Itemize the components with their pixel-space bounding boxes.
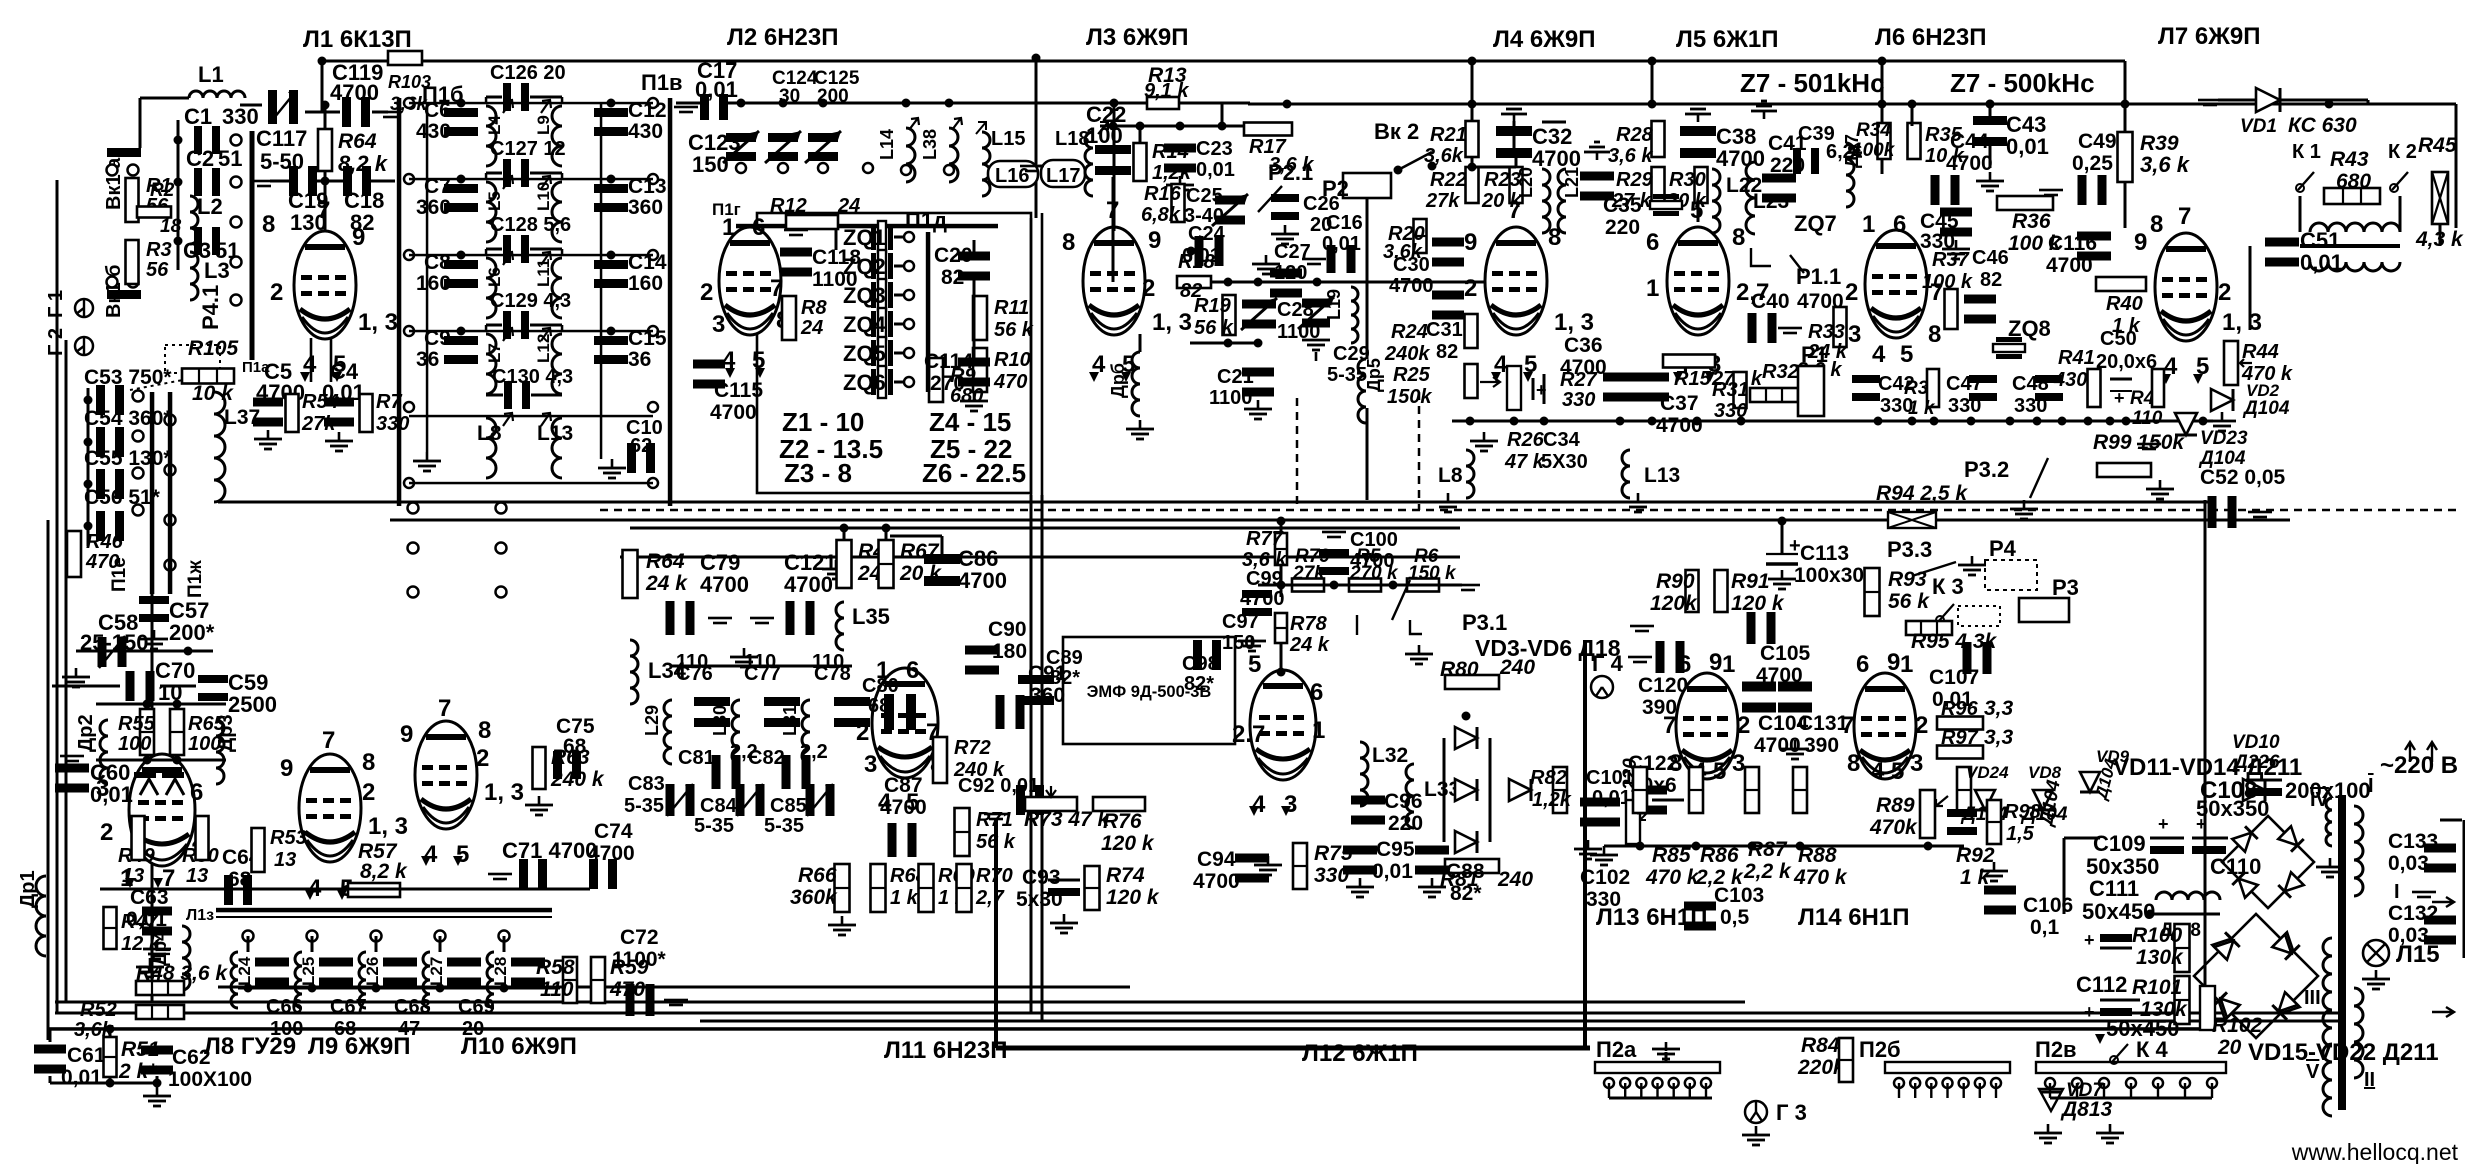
tube L12 pins <box>1232 651 1325 818</box>
label tube L10 <box>461 1033 577 1060</box>
svg-text:C24: C24 <box>1188 223 1226 245</box>
resistor R30 <box>1666 167 1708 212</box>
svg-text:Л12 6Ж1П: Л12 6Ж1П <box>1302 1040 1418 1067</box>
choke Dr5 mid <box>1358 358 1384 423</box>
svg-text:0,01: 0,01 <box>1196 159 1235 181</box>
svg-text:470k: 470k <box>1869 816 1918 839</box>
svg-text:R12: R12 <box>770 195 807 217</box>
ground r98 <box>1980 862 2008 882</box>
resistor R81 <box>1440 859 1533 891</box>
svg-text:L17: L17 <box>1046 165 1080 187</box>
svg-text:5-35: 5-35 <box>694 815 734 837</box>
resistor R72 <box>933 737 1005 783</box>
svg-text:27k: 27k <box>301 413 336 435</box>
svg-text:13: 13 <box>122 865 144 887</box>
resistor R52 <box>74 999 184 1041</box>
svg-text:2: 2 <box>270 279 283 306</box>
wire arrows right <box>2405 742 2454 1017</box>
svg-text:Др1: Др1 <box>17 870 39 908</box>
wire bottom bus 4 <box>48 1027 2210 1031</box>
svg-text:1 k: 1 k <box>1908 398 1936 419</box>
capacitor C116 <box>2046 232 2111 278</box>
ground zq <box>822 560 850 580</box>
svg-text:68: 68 <box>334 1018 356 1040</box>
svg-text:330: 330 <box>1714 400 1747 422</box>
capacitor C106 <box>1984 886 2073 940</box>
svg-text:0,01: 0,01 <box>2300 250 2343 275</box>
svg-text:120 k: 120 k <box>1101 832 1155 855</box>
resistor R80 <box>1440 656 1535 689</box>
svg-text:56 k: 56 k <box>976 831 1016 853</box>
svg-text:Л14 6Н1П: Л14 6Н1П <box>1798 904 1909 931</box>
svg-text:20,0х6: 20,0х6 <box>2096 351 2157 373</box>
svg-text:120k: 120k <box>1650 592 1698 615</box>
capacitor C16 <box>1302 212 1363 273</box>
svg-text:C13: C13 <box>628 175 667 198</box>
svg-text:C74: C74 <box>594 820 633 843</box>
label 50x350b <box>2196 796 2269 821</box>
label C56 <box>84 486 161 509</box>
capacitor C70 <box>126 658 196 705</box>
inductor L35 <box>836 602 890 650</box>
wire anode rail y421 <box>1452 417 2213 426</box>
svg-text:2: 2 <box>362 779 375 806</box>
capacitor C124 <box>765 68 818 173</box>
filter bank terminals left <box>404 98 414 488</box>
svg-text:C105: C105 <box>1760 642 1811 665</box>
svg-text:240: 240 <box>1497 868 1533 891</box>
capacitor C131 <box>1778 682 1849 761</box>
terminal K3 <box>1932 574 2000 626</box>
capacitor C30 <box>1389 238 1464 298</box>
filter bank labels2 <box>676 651 844 673</box>
svg-text:9: 9 <box>1148 227 1161 254</box>
svg-text:3,6 k: 3,6 k <box>1608 145 1653 167</box>
svg-text:R90: R90 <box>1656 570 1695 593</box>
svg-text:5: 5 <box>1713 758 1726 785</box>
crystal ZQ5 <box>843 337 914 369</box>
svg-text:1: 1 <box>1646 275 1659 302</box>
inductor L16 <box>988 161 1062 187</box>
svg-text:К 3: К 3 <box>1932 574 1964 599</box>
capacitor C29 <box>1298 297 1370 386</box>
svg-text:C29: C29 <box>1333 343 1370 365</box>
svg-text:L13: L13 <box>1644 464 1680 487</box>
svg-text:R66: R66 <box>798 864 837 887</box>
electrolytic mid <box>1652 778 1699 800</box>
wire left rail 4 <box>151 420 154 1002</box>
svg-text:Др3: Др3 <box>215 714 237 752</box>
svg-text:L9: L9 <box>534 115 553 135</box>
capacitor C17 <box>674 58 738 120</box>
resistor R7 <box>325 391 409 452</box>
svg-text:100: 100 <box>118 733 151 755</box>
label P3.2 <box>1964 457 2009 482</box>
resistor R48 <box>136 962 228 995</box>
resistor R39 <box>2118 132 2191 182</box>
resistor R4 <box>837 540 895 588</box>
diode VD5 <box>1455 831 1477 853</box>
resistor R66 <box>790 864 856 936</box>
capacitor C103 <box>1684 884 1764 931</box>
svg-text:R30: R30 <box>1669 169 1706 191</box>
svg-text:C126 20: C126 20 <box>490 62 566 84</box>
svg-text:C71 4700: C71 4700 <box>502 838 597 863</box>
filter-bank row L6/L11 <box>409 214 667 318</box>
wire mid-tall verticals <box>1030 495 1044 1021</box>
label tube L13 <box>1596 904 1707 931</box>
wire zq right rail <box>973 54 1041 496</box>
svg-text:330: 330 <box>376 413 409 435</box>
filter-bank row L4/L9 <box>409 62 667 166</box>
label Z4 <box>929 407 1011 437</box>
switch P1.1 <box>1751 248 1804 273</box>
switch wafer P1g <box>712 200 998 250</box>
svg-text:Л9 6Ж9П: Л9 6Ж9П <box>308 1033 411 1060</box>
svg-text:7: 7 <box>438 695 451 722</box>
svg-text:R94 2,5 k: R94 2,5 k <box>1876 482 1968 505</box>
svg-text:5: 5 <box>1248 651 1261 678</box>
svg-text:L21: L21 <box>1562 167 1582 198</box>
resistor R46 <box>67 531 124 577</box>
wire L4 tops <box>1468 104 1567 172</box>
svg-text:430: 430 <box>416 120 451 143</box>
resistor R77 <box>1242 528 1287 571</box>
svg-text:C131: C131 <box>1798 712 1849 735</box>
svg-text:82*: 82* <box>1184 673 1214 695</box>
wire top supply bus <box>322 60 2125 63</box>
label C55 <box>84 447 172 470</box>
wire R44 lower <box>2439 224 2442 246</box>
filter L31 unit <box>780 663 870 764</box>
capacitor C34 <box>1533 374 1588 473</box>
svg-text:R10: R10 <box>994 349 1031 371</box>
svg-text:VD1: VD1 <box>2240 116 2277 137</box>
svg-text:R55: R55 <box>118 713 156 735</box>
connector P2b <box>1859 1037 2010 1088</box>
capacitor C28 <box>1241 298 1320 343</box>
resistor R84 <box>1797 1034 1853 1082</box>
tube L12 envelope <box>1250 670 1316 780</box>
transformer winding V <box>2306 1044 2332 1116</box>
svg-text:R25: R25 <box>1393 364 1431 386</box>
svg-text:56 k: 56 k <box>1194 317 1234 339</box>
svg-text:1: 1 <box>1312 717 1325 744</box>
capacitor C123 <box>688 130 759 177</box>
svg-text:L5: L5 <box>485 191 504 211</box>
svg-text:10 k: 10 k <box>192 382 234 405</box>
wire c108 plate <box>2246 780 2282 796</box>
capacitor C89 <box>1018 647 1083 705</box>
svg-text:C14: C14 <box>628 251 667 274</box>
svg-text:1, 3: 1, 3 <box>1152 309 1192 336</box>
wire trim row terms <box>863 163 873 173</box>
svg-text:R8: R8 <box>801 297 827 319</box>
switch wafer P1a <box>242 131 270 376</box>
svg-text:C87: C87 <box>884 774 923 797</box>
svg-text:L24: L24 <box>235 956 254 986</box>
capacitor C109 <box>2086 814 2184 879</box>
svg-text:R64: R64 <box>338 130 377 153</box>
wire dr row <box>96 700 226 765</box>
svg-text:C37: C37 <box>1660 392 1699 415</box>
svg-text:R53: R53 <box>270 827 307 849</box>
transformer core <box>2338 795 2346 1110</box>
svg-text:Р4.1: Р4.1 <box>198 285 223 330</box>
svg-text:0,01: 0,01 <box>61 1066 102 1089</box>
capacitor C104 <box>1742 682 1809 758</box>
resistor R23 <box>1481 167 1523 212</box>
svg-text:8: 8 <box>1732 224 1745 251</box>
terminal K1 <box>2292 141 2321 192</box>
resistor R64b <box>623 550 689 598</box>
svg-text:Р4: Р4 <box>1989 536 2017 561</box>
svg-text:68: 68 <box>868 695 890 717</box>
svg-text:2: 2 <box>700 279 713 306</box>
svg-text:680: 680 <box>2336 170 2371 193</box>
resistor R88 <box>1793 767 1848 889</box>
capacitor C83 <box>624 773 695 817</box>
wire bottom thick <box>996 1046 1590 1051</box>
capacitor C52 <box>2200 466 2286 528</box>
resistor R24v <box>1465 314 1478 348</box>
wire hlink <box>676 99 1100 108</box>
label tube L8 <box>204 1033 296 1060</box>
resistor R105 <box>182 337 239 405</box>
tank L25/C67 <box>295 931 367 1041</box>
svg-text:4700: 4700 <box>1716 146 1765 171</box>
diode VD6 <box>1509 779 1531 801</box>
capacitor C59 <box>198 670 277 717</box>
svg-text:180: 180 <box>992 640 1027 663</box>
wire L8 mid row <box>100 888 590 891</box>
label VD11-VD14 <box>2113 754 2302 781</box>
diode VD2 <box>2200 379 2290 432</box>
svg-text:L8: L8 <box>1438 464 1463 487</box>
label tube L1 <box>303 26 412 53</box>
svg-text:R72: R72 <box>954 737 991 759</box>
svg-text:Г 1: Г 1 <box>45 290 67 318</box>
label Z7-501 <box>1740 68 1885 98</box>
wire dotted P4 box <box>130 345 220 390</box>
wire psu links <box>2063 837 2155 919</box>
filter L29 unit <box>642 663 730 764</box>
svg-text:C15: C15 <box>628 327 667 350</box>
switch wafer P1z <box>186 907 552 924</box>
capacitor C2 <box>186 146 242 196</box>
svg-text:Дрб: Дрб <box>1108 363 1128 398</box>
svg-text:VD24: VD24 <box>1966 763 2009 782</box>
svg-text:R89: R89 <box>1876 794 1915 817</box>
resistor R91 <box>1715 570 1785 615</box>
resistor R76 <box>1093 797 1155 855</box>
svg-text:L18: L18 <box>1055 128 1089 150</box>
svg-text:R22: R22 <box>1430 169 1467 191</box>
svg-text:2: 2 <box>1845 279 1858 306</box>
inductor L21 <box>1558 167 1582 233</box>
svg-text:1, 3: 1, 3 <box>1554 309 1594 336</box>
svg-text:3: 3 <box>1848 321 1861 348</box>
bridge VD11-14 <box>0 0 1 1</box>
bridge rectifier VD11-VD14 <box>2222 816 2344 908</box>
svg-text:C54 360*: C54 360* <box>84 407 172 430</box>
svg-text:20: 20 <box>2217 1036 2242 1059</box>
svg-text:ZQ8: ZQ8 <box>2008 316 2051 341</box>
wire second bus <box>1248 103 2456 106</box>
lamp L15 <box>2363 940 2440 968</box>
capacitor C53 <box>96 385 124 415</box>
capacitor C39 <box>1793 123 1862 174</box>
wire L1 left <box>139 97 263 149</box>
svg-text:Г 3: Г 3 <box>1776 1100 1807 1125</box>
transformer top right <box>2299 196 2402 271</box>
svg-text:L37: L37 <box>224 406 260 429</box>
resistor R32 <box>1750 359 1842 402</box>
diode VD23 <box>2175 413 2248 469</box>
resistor R9 <box>929 358 983 407</box>
choke Dr3 <box>215 714 237 784</box>
choke Dr1 <box>17 870 46 956</box>
wire C119 link <box>305 57 402 119</box>
resistor R101 <box>2132 976 2190 1024</box>
svg-text:18: 18 <box>160 216 182 237</box>
svg-text:I: I <box>2368 775 2374 797</box>
label C54 <box>84 407 172 430</box>
wire bus corner right <box>2124 61 2127 133</box>
svg-text:L30: L30 <box>710 705 730 736</box>
diode VD7 <box>2034 1080 2124 1144</box>
resistor R16 <box>1141 183 1185 226</box>
svg-text:~220 В: ~220 В <box>2380 752 2458 779</box>
capacitor C86 <box>924 546 1007 593</box>
capacitor C54 <box>96 427 124 457</box>
label Z2 <box>779 434 883 464</box>
svg-text:+: + <box>1789 535 1801 557</box>
svg-text:Z1 - 10: Z1 - 10 <box>782 407 864 437</box>
capacitor C119 <box>330 60 383 127</box>
svg-text:C102: C102 <box>1580 866 1630 889</box>
svg-text:C34: C34 <box>1543 429 1581 451</box>
svg-text:Л5 6Ж1П: Л5 6Ж1П <box>1676 26 1779 53</box>
svg-text:R77: R77 <box>1246 528 1284 550</box>
svg-text:Z7 - 501kHc: Z7 - 501kHc <box>1740 68 1885 98</box>
svg-text:R3: R3 <box>146 239 172 261</box>
svg-text:1, 3: 1, 3 <box>484 779 524 806</box>
svg-text:8: 8 <box>1928 321 1941 348</box>
svg-text:8: 8 <box>1062 229 1075 256</box>
inductor L23 <box>1746 162 1789 234</box>
wire C43 stem <box>1908 100 1995 169</box>
svg-text:C81: C81 <box>678 747 715 769</box>
resistor R58 <box>536 956 577 1003</box>
wire bottom bus 2 <box>55 1012 2338 1015</box>
tube L6 envelope <box>1865 230 1927 338</box>
svg-text:7: 7 <box>2178 203 2191 230</box>
label D104c <box>2036 778 2065 829</box>
svg-text:1: 1 <box>1862 211 1875 238</box>
capacitor C43 <box>1973 112 2049 192</box>
tube L3 envelope <box>1083 227 1145 335</box>
resistor R85 <box>1633 767 1700 889</box>
svg-text:C50: C50 <box>2100 328 2137 350</box>
svg-text:C12: C12 <box>628 99 667 122</box>
capacitor C101 <box>1580 767 1634 827</box>
crystal ZQ4 <box>843 308 914 340</box>
svg-text:L19: L19 <box>1324 289 1344 320</box>
connector P2v <box>2035 1037 2226 1088</box>
svg-text:C30: C30 <box>1393 254 1430 276</box>
diode VD24 <box>1960 763 2009 825</box>
svg-text:200*: 200* <box>169 620 215 645</box>
diode VD4 <box>1455 779 1477 801</box>
svg-text:C93: C93 <box>1022 866 1061 889</box>
svg-text:C61: C61 <box>67 1044 106 1067</box>
svg-text:II: II <box>2364 1069 2375 1091</box>
resistor R70 <box>957 864 1013 912</box>
capacitor C122 <box>1628 752 1678 815</box>
resistor R69 <box>919 864 976 912</box>
svg-text:R74: R74 <box>1106 864 1145 887</box>
svg-text:13: 13 <box>186 865 208 887</box>
svg-text:R54: R54 <box>302 391 339 413</box>
svg-text:+: + <box>2084 1002 2095 1022</box>
wire thick vertical x1585 <box>994 640 1587 1048</box>
resistor R11 <box>973 296 1034 341</box>
svg-text:C80: C80 <box>862 675 899 697</box>
resistor R28 <box>1608 121 1665 167</box>
svg-text:L20: L20 <box>1516 167 1536 198</box>
wire tube7 drop <box>1110 99 1119 232</box>
svg-text:36: 36 <box>628 348 651 371</box>
choke Dr4 <box>136 926 190 990</box>
svg-text:L2: L2 <box>197 194 223 219</box>
inductor L33 <box>1406 764 1460 828</box>
svg-text:130k: 130k <box>2136 946 2184 969</box>
wire diode ring <box>1443 712 1492 843</box>
svg-text:R84: R84 <box>1801 1034 1840 1057</box>
resistor R63 <box>525 746 605 816</box>
crystal ZQ2 <box>843 250 914 282</box>
resistor R25v <box>1465 364 1478 398</box>
capacitor C56 <box>96 511 124 541</box>
svg-text:470: 470 <box>85 551 119 573</box>
resistor R97 <box>1937 726 2014 759</box>
tank L26/C68 <box>359 931 431 1041</box>
capacitor C125 <box>805 68 860 173</box>
tube L5 envelope <box>1667 227 1729 335</box>
svg-text:+: + <box>1536 380 1547 400</box>
svg-text:C127 12: C127 12 <box>490 138 566 160</box>
svg-text:R15: R15 <box>1674 368 1712 390</box>
wire L1-C117 row <box>240 104 262 107</box>
switch wafer P1b <box>397 82 464 506</box>
svg-text:L26: L26 <box>363 957 382 986</box>
svg-text:П1ж: П1ж <box>185 560 206 598</box>
box EMF filter <box>1063 637 1235 744</box>
resistor R67 <box>879 540 943 588</box>
svg-text:L16: L16 <box>995 165 1029 187</box>
svg-text:C107: C107 <box>1929 666 1979 689</box>
svg-text:130: 130 <box>290 210 327 235</box>
capacitor C51 <box>2265 228 2343 275</box>
svg-text:Л3 6Ж9П: Л3 6Ж9П <box>1086 24 1189 51</box>
capacitor C133 <box>2388 830 2456 875</box>
svg-text:110: 110 <box>676 651 708 673</box>
capacitor C10 <box>626 417 663 473</box>
capacitor C96 <box>1351 790 1423 835</box>
resistor R65 <box>170 709 226 755</box>
capacitor C71 <box>488 838 597 889</box>
